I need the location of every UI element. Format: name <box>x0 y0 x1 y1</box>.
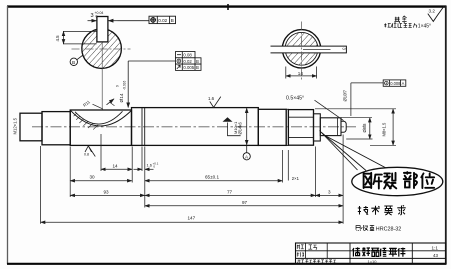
svg-text:-0.016: -0.016 <box>123 80 127 90</box>
svg-text:1.6: 1.6 <box>147 162 152 167</box>
svg-text:3: 3 <box>328 190 331 195</box>
dimension 3 (end groove) <box>315 190 343 196</box>
stacked tolerance frame (3 rows) <box>176 52 202 71</box>
svg-text:4.5: 4.5 <box>55 35 60 42</box>
svg-text:0: 0 <box>95 15 98 19</box>
position tolerance frame (circled-plus 0.02 B) <box>149 16 176 23</box>
dimension Ø14 -0.016 (keyway journal) <box>116 80 127 102</box>
surface finish 1.6 on shaft top <box>208 96 221 107</box>
end tip (rounded) <box>341 121 346 132</box>
char bu <box>404 172 411 187</box>
surface roughness note top-right: 3.2 symbol <box>428 6 445 22</box>
svg-text:B: B <box>171 18 174 23</box>
dimension Ø14k6 with internal arrows <box>238 108 247 145</box>
dimension 1.6+0.1 (groove width) <box>134 162 159 170</box>
shaft segment 5 <box>258 109 286 145</box>
wire: leader from dim 3 to position tolerance frame <box>118 20 150 22</box>
svg-text:0: 0 <box>116 85 120 88</box>
section view arrow near keyway <box>107 99 115 106</box>
svg-text:B: B <box>196 59 199 64</box>
collar <box>314 114 321 141</box>
svg-text:Ø8f8: Ø8f8 <box>362 123 367 133</box>
note: qi yu (the rest) <box>394 16 406 23</box>
shaft segment 2 <box>42 112 70 145</box>
svg-text:0.008: 0.008 <box>390 81 401 86</box>
fracture balloon ellipse <box>352 167 443 195</box>
dimension Ø8f8 (vertical, right of end shaft) <box>341 118 373 139</box>
dimension 97 <box>145 200 343 206</box>
dimension 93 <box>70 190 145 196</box>
svg-text:M12×1.5: M12×1.5 <box>13 117 18 134</box>
dimension 4.5 (key depth) <box>55 31 97 44</box>
svg-text:65±0.1: 65±0.1 <box>205 175 219 180</box>
svg-text:R11: R11 <box>82 99 91 108</box>
bottom strip tiny competition text <box>297 260 336 263</box>
svg-text:0.8: 0.8 <box>84 153 89 157</box>
note: sharp edges chamfer 1x45 <box>384 23 417 27</box>
svg-text:HRC28-32: HRC28-32 <box>376 227 401 233</box>
svg-text:M8×1.5: M8×1.5 <box>381 122 386 136</box>
section A-A vertical centerline <box>301 22 303 80</box>
dimension 3 +0.04 (key width) <box>88 11 118 21</box>
svg-text:2×1: 2×1 <box>292 176 300 181</box>
svg-text:1×45°: 1×45° <box>418 24 431 30</box>
section B-B horizontal centerline <box>72 48 131 50</box>
svg-text:1=10: 1=10 <box>368 259 378 264</box>
concentricity frame (0.008 A) <box>383 80 406 86</box>
slot through section A-A (screwdriver slot + tab) <box>271 46 347 54</box>
svg-text:14: 14 <box>113 164 119 169</box>
svg-text:0: 0 <box>153 165 156 169</box>
svg-text:14: 14 <box>298 71 304 76</box>
bent leader arrow M10x1 <box>223 117 241 135</box>
svg-text:1:1: 1:1 <box>432 245 439 250</box>
thread runout line <box>337 118 339 135</box>
svg-text:A: A <box>402 81 405 86</box>
main view centerline <box>32 126 356 128</box>
title block small labels (zhitu / jiaohe / gonghao) <box>297 245 317 257</box>
char yao <box>384 206 392 215</box>
keyway pocket (milled scoop) <box>70 110 131 129</box>
svg-text:Ø14: Ø14 <box>119 93 125 102</box>
char ji <box>358 206 368 215</box>
svg-text:3: 3 <box>91 13 94 19</box>
svg-text:1.6: 1.6 <box>208 96 215 101</box>
dimension 147 (overall length) <box>41 216 344 223</box>
dimension 65±0.1 <box>145 175 283 181</box>
section B-B circle (left, hatched) <box>82 29 122 69</box>
dimension Ø10f7 with leader to tolerance frame <box>342 83 383 116</box>
dimension 77 <box>145 190 316 196</box>
svg-text:Ø14k6: Ø14k6 <box>238 121 243 134</box>
dimension 14 (section A-A flats) <box>286 67 317 79</box>
svg-text:0.5×45°: 0.5×45° <box>286 95 304 101</box>
svg-text:0.02: 0.02 <box>183 59 192 64</box>
char wei <box>421 173 434 188</box>
svg-text:43: 43 <box>433 253 438 258</box>
shaft segment 1 (threaded left end M12) <box>20 113 42 141</box>
svg-text:0.08: 0.08 <box>183 53 192 58</box>
char lie <box>384 173 395 182</box>
char duan <box>364 173 372 188</box>
svg-text:3.2: 3.2 <box>429 9 436 14</box>
threaded end shaft (fracture zone) <box>320 118 341 136</box>
svg-text:B: B <box>72 60 75 66</box>
svg-text:93: 93 <box>104 190 110 195</box>
extension lines below shaft <box>41 134 344 224</box>
svg-text:0.005: 0.005 <box>183 65 194 70</box>
relief groove <box>142 108 145 145</box>
svg-text:30: 30 <box>90 175 96 180</box>
surface finish symbol under left step <box>84 146 95 157</box>
svg-text:Ø10f7: Ø10f7 <box>342 89 347 101</box>
section B-B vertical centerline / cut trace <box>101 42 103 110</box>
datum B circle <box>70 55 83 66</box>
hex section <box>288 110 313 146</box>
svg-text:97: 97 <box>242 200 248 205</box>
svg-text:M10×1: M10×1 <box>233 121 238 134</box>
title block grid <box>296 243 446 264</box>
section A-A circle (right, hatched, slotted) <box>282 30 320 68</box>
key / keyway slot in section B-B <box>97 17 108 42</box>
datum A flag <box>243 145 250 160</box>
shaft segment 3 (keyway journal) <box>70 110 131 145</box>
technical requirements heading (ji shu yao qiu) <box>358 205 406 215</box>
dimension 14 (keyway length) <box>101 164 132 170</box>
fracture label text (duan lie bu wei) drawn as strokes <box>364 172 435 188</box>
thin washer ring <box>286 109 288 145</box>
fracture balloon tail lines <box>320 131 388 171</box>
svg-text:77: 77 <box>227 190 233 195</box>
heat treatment note: re chu li HRC28-32 <box>356 225 374 231</box>
dimension M8x1.5 (vertical, far right) <box>315 109 396 146</box>
svg-text:B: B <box>196 65 199 70</box>
chamfer note 0.5x45 with leader <box>286 95 344 120</box>
char qiu <box>397 205 405 215</box>
char shu <box>371 206 379 215</box>
svg-text:147: 147 <box>188 216 196 221</box>
shaft segment 4 (long Ø14 body) <box>132 108 259 146</box>
title text: encoder output shaft (6 glyphs) <box>353 247 406 256</box>
svg-text:0.02: 0.02 <box>158 18 167 23</box>
wire: leader from stacked frame down to shaft <box>128 61 175 108</box>
dimension 30 <box>70 175 132 181</box>
